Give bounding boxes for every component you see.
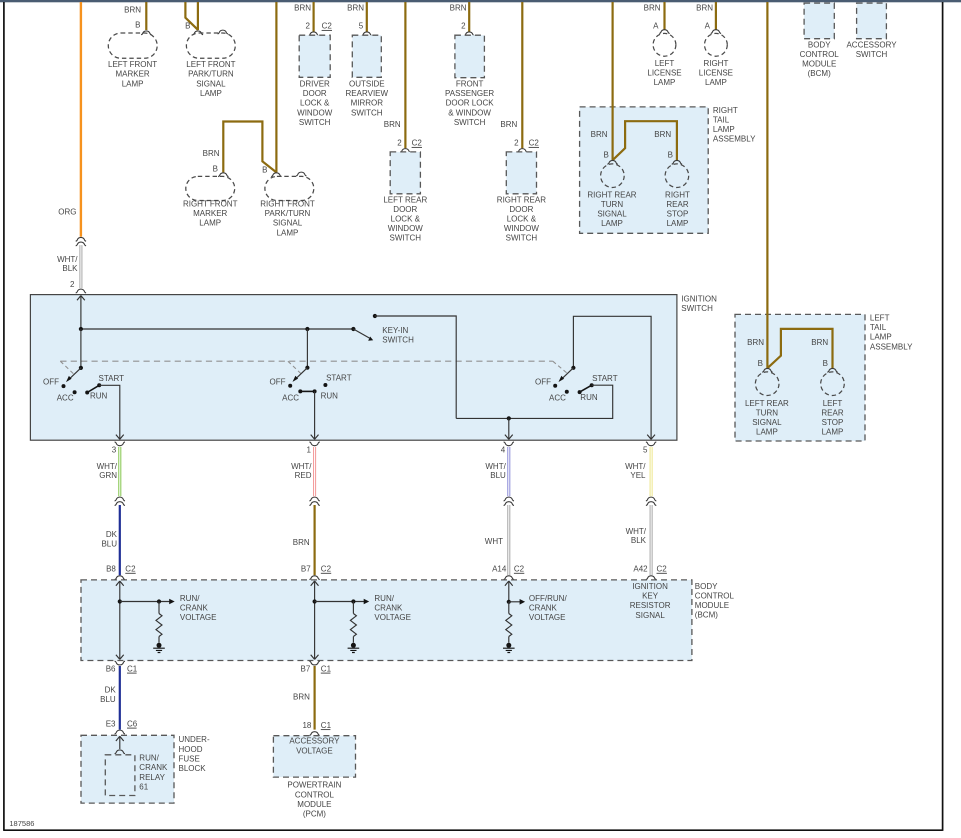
svg-text:PARK/TURN: PARK/TURN <box>265 209 311 218</box>
svg-text:MARKER: MARKER <box>115 70 149 79</box>
svg-text:RIGHT: RIGHT <box>665 190 690 199</box>
terminal dome mirror switch <box>362 32 372 36</box>
svg-text:CONTROL: CONTROL <box>695 591 735 600</box>
wire switch 2 output to pin 1 <box>311 391 319 439</box>
svg-text:BRN: BRN <box>811 338 828 347</box>
svg-text:MARKER: MARKER <box>193 209 227 218</box>
label LEFT FRONT PARK/TURN SIGNAL LAMP <box>186 60 235 98</box>
terminal cup ignition pin 1 <box>309 442 319 446</box>
svg-text:SIGNAL: SIGNAL <box>597 210 627 219</box>
switch 1 pivot node <box>79 366 83 370</box>
BCM circuit 2 signal arrow RUN/CRANK VOLTAGE <box>315 599 370 605</box>
svg-text:START: START <box>99 374 125 383</box>
label POWERTRAIN CONTROL MODULE (PCM) <box>287 781 341 819</box>
switch 1 contact ACC <box>73 390 77 394</box>
connector C2 at B7 <box>321 565 332 574</box>
connector C6 at E3 <box>127 719 138 728</box>
lamp LEFT FRONT PARK/TURN SIGNAL LAMP <box>186 33 235 58</box>
switch 1 lever arrow <box>66 368 81 382</box>
lamp LEFT LICENSE LAMP <box>653 33 676 56</box>
svg-text:2: 2 <box>397 139 402 148</box>
box BODY CONTROL MODULE (BCM) <box>81 580 692 661</box>
svg-text:LOCK &: LOCK & <box>300 99 330 108</box>
switch 2 bridge ACC-RUN <box>300 390 314 392</box>
svg-text:LAMP: LAMP <box>122 79 144 88</box>
wire BRN long drop to right front park/turn signal lamp <box>275 2 277 172</box>
lamp RIGHT LICENSE LAMP <box>705 33 728 56</box>
BCM circuit 1 junction node <box>118 599 122 603</box>
svg-text:C2: C2 <box>657 565 668 574</box>
switch 2 contact OFF <box>288 384 292 388</box>
label DK BLU <box>101 530 117 548</box>
box RIGHT REAR DOOR LOCK & WINDOW SWITCH <box>506 152 536 194</box>
pin 2 front passenger door switch <box>461 22 466 31</box>
BCM circuit 3 junction node <box>507 600 511 604</box>
svg-text:WHT/: WHT/ <box>625 462 646 471</box>
connector C2 driver door switch <box>322 22 333 31</box>
wire DK BLU BCM to underhood fuse block <box>119 666 121 730</box>
svg-text:ACCESSORY: ACCESSORY <box>846 40 897 49</box>
terminal dome right rear door switch <box>517 149 527 153</box>
terminal dome BCM A42 <box>646 576 656 580</box>
svg-text:LEFT REAR: LEFT REAR <box>745 399 789 408</box>
svg-text:BLU: BLU <box>490 471 506 480</box>
svg-text:DOOR: DOOR <box>509 205 533 214</box>
svg-text:2: 2 <box>70 280 75 289</box>
pin 1 label <box>307 445 312 454</box>
wire BRN to left front park/turn signal lamp (bent) <box>185 2 198 30</box>
svg-text:HOOD: HOOD <box>179 745 203 754</box>
svg-text:RELAY: RELAY <box>139 773 165 782</box>
svg-text:LAMP: LAMP <box>199 219 221 228</box>
connector C2 at A14 <box>514 565 525 574</box>
box UNDERHOOD FUSE BLOCK <box>81 735 174 803</box>
second filament dome right front park/turn signal lamp <box>296 172 306 176</box>
svg-text:18: 18 <box>302 721 311 730</box>
svg-text:5: 5 <box>643 445 648 454</box>
pin B6 label <box>106 664 116 673</box>
svg-text:C2: C2 <box>125 565 136 574</box>
svg-text:OFF/RUN/: OFF/RUN/ <box>529 594 568 603</box>
wire ORG feed from top <box>80 2 82 237</box>
wire BRN to left license lamp <box>663 2 665 30</box>
svg-text:BLK: BLK <box>631 536 647 545</box>
label BRN right license <box>696 4 713 13</box>
svg-text:TURN: TURN <box>756 408 778 417</box>
label ACC switch 2 <box>282 393 299 402</box>
inline connector WHT/RED to BRN <box>309 497 319 505</box>
switch 2 pivot node <box>305 366 309 370</box>
svg-text:WHT/: WHT/ <box>626 527 647 536</box>
pin B8 label <box>106 565 116 574</box>
label BRN left rear stop <box>811 338 828 347</box>
svg-text:RUN/: RUN/ <box>374 594 394 603</box>
wire switch 3 output joining pin 4 rail <box>456 385 613 418</box>
svg-text:A: A <box>705 22 711 31</box>
svg-text:B: B <box>668 151 673 160</box>
svg-text:BRN: BRN <box>347 4 364 13</box>
label BODY CONTROL MODULE (BCM) <box>695 582 735 620</box>
label RUN switch 2 <box>321 392 339 401</box>
inline connector WHT/BLU to WHT <box>504 497 514 505</box>
switch 2 contact RUN <box>313 389 317 393</box>
wire WHT/GRN pin 3 <box>118 447 121 496</box>
wire BRN long drop to left tail lamp assembly <box>766 2 768 369</box>
label IGNITION SWITCH <box>681 294 717 313</box>
wire BRN long drop to right tail lamp assembly <box>611 2 613 161</box>
resistor BCM circuit 1 <box>156 602 162 643</box>
svg-text:LAMP: LAMP <box>277 228 299 237</box>
label LEFT REAR TURN SIGNAL LAMP <box>745 399 789 437</box>
terminal dome run/crank relay <box>115 750 125 754</box>
svg-text:BRN: BRN <box>203 149 220 158</box>
svg-text:B6: B6 <box>106 664 116 673</box>
terminal dome left rear stop lamp <box>827 368 837 372</box>
terminal cup ignition pin 5 <box>646 442 656 446</box>
pin 18 label <box>302 721 311 730</box>
svg-text:WINDOW: WINDOW <box>504 224 540 233</box>
terminal dome front passenger door switch <box>464 32 474 36</box>
svg-text:LAMP: LAMP <box>756 428 778 437</box>
terminal dome right rear stop lamp <box>672 160 682 164</box>
svg-text:BRN: BRN <box>293 538 310 547</box>
connector C1 at 18 <box>321 721 332 730</box>
svg-text:C2: C2 <box>514 565 525 574</box>
wire junction to pin 4 <box>505 418 513 439</box>
terminal dome left front marker lamp <box>141 31 151 35</box>
wire WHT/BLU pin 4 <box>507 447 510 496</box>
box DRIVER DOOR LOCK & WINDOW SWITCH <box>299 35 330 77</box>
svg-text:ACCESSORY: ACCESSORY <box>289 737 340 746</box>
svg-text:MODULE: MODULE <box>695 601 729 610</box>
junction node pin 4 rail <box>507 416 511 420</box>
svg-text:DK: DK <box>105 685 117 694</box>
svg-text:SWITCH: SWITCH <box>382 335 414 344</box>
connector C1 at B7 bottom <box>321 664 332 673</box>
box ACCESSORY VOLTAGE (PCM) <box>273 736 355 777</box>
inline connector WHT/YEL to WHT/BLK <box>646 497 656 505</box>
svg-text:SWITCH: SWITCH <box>454 118 486 127</box>
BCM circuit 1 signal arrow RUN/CRANK VOLTAGE <box>120 599 175 605</box>
svg-text:C2: C2 <box>322 22 333 31</box>
svg-text:TAIL: TAIL <box>870 323 887 332</box>
svg-text:SWITCH: SWITCH <box>351 108 383 117</box>
pin 2 driver door switch <box>306 22 311 31</box>
svg-text:B7: B7 <box>301 565 311 574</box>
switch 2 lever arrow <box>293 368 308 382</box>
svg-text:C1: C1 <box>321 721 332 730</box>
svg-text:REARVIEW: REARVIEW <box>346 89 389 98</box>
terminal dome left rear door switch <box>400 149 410 153</box>
wire BRN branch to right rear stop lamp <box>613 121 677 160</box>
svg-text:TAIL: TAIL <box>713 116 730 125</box>
svg-text:VOLTAGE: VOLTAGE <box>180 613 217 622</box>
svg-text:LOCK &: LOCK & <box>507 215 537 224</box>
label WHT/RED <box>291 462 312 480</box>
svg-text:BRN: BRN <box>124 6 141 15</box>
label ACC switch 3 <box>549 393 566 402</box>
terminal dome right license lamp <box>711 30 721 34</box>
svg-text:BLOCK: BLOCK <box>179 764 207 773</box>
switch 1 bridge RUN-START <box>87 385 99 392</box>
label BRN <box>124 6 141 15</box>
svg-text:4: 4 <box>501 445 506 454</box>
svg-text:RIGHT FRONT: RIGHT FRONT <box>183 200 238 209</box>
wire key-in contact to pin 4 rail <box>375 316 456 418</box>
svg-text:DOOR LOCK: DOOR LOCK <box>446 99 495 108</box>
wire switch 1 output to pin 3 <box>99 385 124 439</box>
switch 2 pole wire <box>306 329 308 368</box>
connector C2 at A42 <box>657 565 668 574</box>
label WHT/BLU <box>485 462 506 480</box>
terminal dome left front park/turn signal lamp <box>193 31 203 35</box>
svg-text:MODULE: MODULE <box>802 60 836 69</box>
terminal cup BCM B7 bottom <box>309 661 319 665</box>
label UNDER-HOOD FUSE BLOCK <box>179 735 210 773</box>
label BRN right rear turn <box>591 130 608 139</box>
dashed mechanical linkage line <box>60 361 567 375</box>
svg-text:LEFT FRONT: LEFT FRONT <box>108 60 157 69</box>
pin 3 label <box>112 445 117 454</box>
label BRN left license <box>644 4 661 13</box>
label DK BLU lower <box>100 685 116 703</box>
switch 2 contact ACC <box>298 389 302 393</box>
label OFF/RUN/CRANK VOLTAGE <box>529 594 568 622</box>
pin B7 label <box>301 565 311 574</box>
BCM circuit 1 vertical wire with entry/exit arrows <box>116 581 124 659</box>
svg-text:BRN: BRN <box>654 130 671 139</box>
label BRN left rear turn <box>747 338 764 347</box>
label OFF switch 2 <box>270 377 286 386</box>
switch 3 bridge RUN-START <box>580 385 592 392</box>
svg-text:IGNITION: IGNITION <box>632 582 668 591</box>
wire BRN to right rear door lock & window switch <box>521 2 523 148</box>
svg-text:TURN: TURN <box>601 200 623 209</box>
pin B right rear stop lamp <box>668 151 673 160</box>
label BRN right rear stop <box>654 130 671 139</box>
svg-text:RED: RED <box>295 471 312 480</box>
pin B left front marker lamp <box>135 21 140 30</box>
resistor BCM circuit 3 <box>506 602 512 643</box>
box FRONT PASSENGER DOOR LOCK & WINDOW SWITCH <box>455 35 485 77</box>
BCM circuit 1 resistor tap node <box>157 599 161 603</box>
connector C2 right rear door switch <box>529 139 540 148</box>
label LEFT FRONT MARKER LAMP <box>108 60 157 88</box>
svg-text:2: 2 <box>514 139 519 148</box>
wire BRN to outside rearview mirror switch <box>366 2 368 32</box>
label START switch 3 <box>592 374 618 383</box>
pin A left license lamp <box>653 22 659 31</box>
svg-text:B: B <box>758 359 763 368</box>
pin 5 label <box>643 445 648 454</box>
svg-text:LICENSE: LICENSE <box>647 69 681 78</box>
lamp LEFT FRONT MARKER LAMP <box>108 33 157 58</box>
wire DK BLU to BCM B8 <box>119 505 121 575</box>
svg-text:SWITCH: SWITCH <box>390 234 422 243</box>
svg-text:SIGNAL: SIGNAL <box>635 611 665 620</box>
switch 3 pivot node <box>571 366 575 370</box>
label RIGHT FRONT PARK/TURN SIGNAL LAMP <box>260 200 315 238</box>
svg-text:ASSEMBLY: ASSEMBLY <box>870 342 913 351</box>
svg-text:C1: C1 <box>127 664 138 673</box>
label BRN lower <box>293 692 310 701</box>
terminal dome right front marker lamp <box>218 173 228 177</box>
svg-text:VOLTAGE: VOLTAGE <box>296 746 333 755</box>
svg-text:A: A <box>653 22 659 31</box>
svg-text:CONTROL: CONTROL <box>295 790 335 799</box>
label BRN left rear door <box>384 120 401 129</box>
svg-text:LAMP: LAMP <box>705 78 727 87</box>
svg-text:SWITCH: SWITCH <box>299 118 331 127</box>
svg-text:3: 3 <box>112 445 117 454</box>
svg-text:REAR: REAR <box>666 200 688 209</box>
svg-text:C1: C1 <box>321 664 332 673</box>
connector C2 left rear door switch <box>412 139 423 148</box>
label START switch 1 <box>99 374 125 383</box>
BCM circuit 2 resistor tap node <box>351 599 355 603</box>
lamp RIGHT REAR TURN SIGNAL LAMP <box>601 164 625 188</box>
switch 1 contact START <box>97 383 101 387</box>
svg-text:C2: C2 <box>412 139 423 148</box>
svg-text:LEFT: LEFT <box>823 399 843 408</box>
box ACCESSORY SWITCH stub top right <box>857 3 887 39</box>
label LEFT LICENSE LAMP <box>647 59 681 87</box>
svg-text:SIGNAL: SIGNAL <box>752 418 782 427</box>
svg-text:BLK: BLK <box>62 264 78 273</box>
svg-text:RUN/: RUN/ <box>139 754 159 763</box>
pin A right license lamp <box>705 22 711 31</box>
inline connector WHT/GRN to DK BLU <box>115 497 125 505</box>
lamp RIGHT FRONT MARKER LAMP <box>186 176 235 200</box>
lamp RIGHT REAR STOP LAMP <box>665 164 689 188</box>
svg-text:ORG: ORG <box>58 208 76 217</box>
pin 2 right rear door switch <box>514 139 519 148</box>
svg-text:RIGHT: RIGHT <box>703 59 728 68</box>
svg-text:B: B <box>135 21 140 30</box>
wire BRN to right license lamp <box>715 2 717 30</box>
label OFF switch 1 <box>43 378 59 387</box>
label START switch 2 <box>326 373 352 382</box>
label figure number 187586 <box>9 819 34 828</box>
svg-text:LOCK &: LOCK & <box>391 215 421 224</box>
svg-text:B: B <box>823 359 828 368</box>
label BRN right rear door <box>500 120 517 129</box>
svg-text:STOP: STOP <box>822 418 844 427</box>
svg-text:LAMP: LAMP <box>601 219 623 228</box>
svg-text:SWITCH: SWITCH <box>681 304 713 313</box>
inline connector ORG to WHT/BLK <box>76 237 86 245</box>
label RIGHT REAR DOOR LOCK & WINDOW SWITCH <box>497 195 546 242</box>
terminal dome right front park/turn signal lamp <box>271 173 281 177</box>
svg-text:BRN: BRN <box>747 338 764 347</box>
svg-text:RIGHT REAR: RIGHT REAR <box>587 190 636 199</box>
label LEFT REAR STOP LAMP <box>821 399 843 437</box>
label RUN switch 1 <box>90 392 108 401</box>
svg-text:E3: E3 <box>106 719 116 728</box>
junction node bus at switch 1 <box>79 327 83 331</box>
switch 1 pole wire <box>80 329 82 368</box>
svg-text:DK: DK <box>106 530 118 539</box>
svg-text:LAMP: LAMP <box>200 89 222 98</box>
ground BCM circuit 2 <box>348 643 360 653</box>
pin B left rear stop lamp <box>823 359 828 368</box>
svg-text:MODULE: MODULE <box>297 800 331 809</box>
pin A42 label <box>633 565 648 574</box>
svg-text:RESISTOR: RESISTOR <box>630 601 671 610</box>
label BRN mid <box>293 538 310 547</box>
svg-text:IGNITION: IGNITION <box>681 294 717 303</box>
box BODY CONTROL MODULE (BCM) stub top right <box>804 3 834 39</box>
svg-text:RUN: RUN <box>580 393 598 402</box>
switch 2 contact START <box>323 383 327 387</box>
second filament dome left front park/turn signal lamp <box>218 30 228 34</box>
wire BRN bracket feeding right front marker lamp <box>223 122 276 173</box>
BCM circuit 3 vertical wire with entry arrow <box>505 581 513 602</box>
svg-text:LEFT: LEFT <box>870 314 890 323</box>
svg-text:WINDOW: WINDOW <box>388 224 424 233</box>
svg-text:REAR: REAR <box>821 408 843 417</box>
svg-text:START: START <box>326 373 352 382</box>
wire WHT/RED pin 1 <box>313 447 316 496</box>
svg-text:SWITCH: SWITCH <box>506 234 538 243</box>
wire BRN to driver door lock & window switch <box>313 2 315 32</box>
label RIGHT TAIL LAMP ASSEMBLY <box>713 106 756 144</box>
svg-text:OFF: OFF <box>270 377 286 386</box>
switch 3 contact ACC <box>565 390 569 394</box>
svg-text:BRN: BRN <box>696 4 713 13</box>
terminal dome left rear turn signal lamp <box>762 368 772 372</box>
wire BRN branch to left rear stop lamp <box>767 329 832 369</box>
switch 1 contact RUN <box>85 391 89 395</box>
lamp LEFT REAR STOP LAMP <box>821 372 845 396</box>
label WHT <box>485 537 503 546</box>
svg-text:DOOR: DOOR <box>393 205 417 214</box>
svg-text:VOLTAGE: VOLTAGE <box>529 613 566 622</box>
switch 1 contact OFF <box>62 384 66 388</box>
label WHT/BLK mid <box>626 527 647 545</box>
label LEFT REAR DOOR LOCK & WINDOW SWITCH <box>383 195 427 242</box>
resistor BCM circuit 2 <box>350 602 356 643</box>
wire BRN to left front marker lamp <box>145 2 147 30</box>
box RIGHT TAIL LAMP ASSEMBLY <box>580 107 709 233</box>
pin 5 outside rearview mirror switch <box>359 22 364 31</box>
svg-text:BLU: BLU <box>101 539 117 548</box>
label WHT/GRN <box>97 462 118 480</box>
pin B left front park/turn signal lamp <box>185 22 190 31</box>
svg-text:MIRROR: MIRROR <box>351 99 384 108</box>
label RIGHT REAR TURN SIGNAL LAMP <box>587 190 636 228</box>
svg-text:OFF: OFF <box>43 378 59 387</box>
terminal dome right rear turn signal lamp <box>607 160 617 164</box>
svg-text:BRN: BRN <box>384 120 401 129</box>
pin B right front marker lamp <box>213 165 218 174</box>
label RUN/CRANK VOLTAGE circuit 2 <box>374 594 411 622</box>
key-in switch contact <box>373 314 377 318</box>
switch 3 contact RUN <box>578 390 582 394</box>
junction node bus at switch 2 <box>305 327 309 331</box>
wire BRN to front passenger door lock & window switch <box>468 2 470 32</box>
svg-text:BODY: BODY <box>808 40 831 49</box>
svg-text:BRN: BRN <box>500 120 517 129</box>
label KEY-IN SWITCH <box>382 326 414 345</box>
svg-text:1: 1 <box>307 445 312 454</box>
svg-text:LICENSE: LICENSE <box>699 69 733 78</box>
svg-text:UNDER-: UNDER- <box>179 735 210 744</box>
pin B right front park/turn signal lamp <box>262 166 267 175</box>
terminal dome BCM B7 <box>309 576 319 580</box>
BCM circuit 3 signal arrow OFF/RUN/CRANK VOLTAGE <box>509 599 525 605</box>
label ACCESSORY SWITCH stub <box>846 40 897 59</box>
